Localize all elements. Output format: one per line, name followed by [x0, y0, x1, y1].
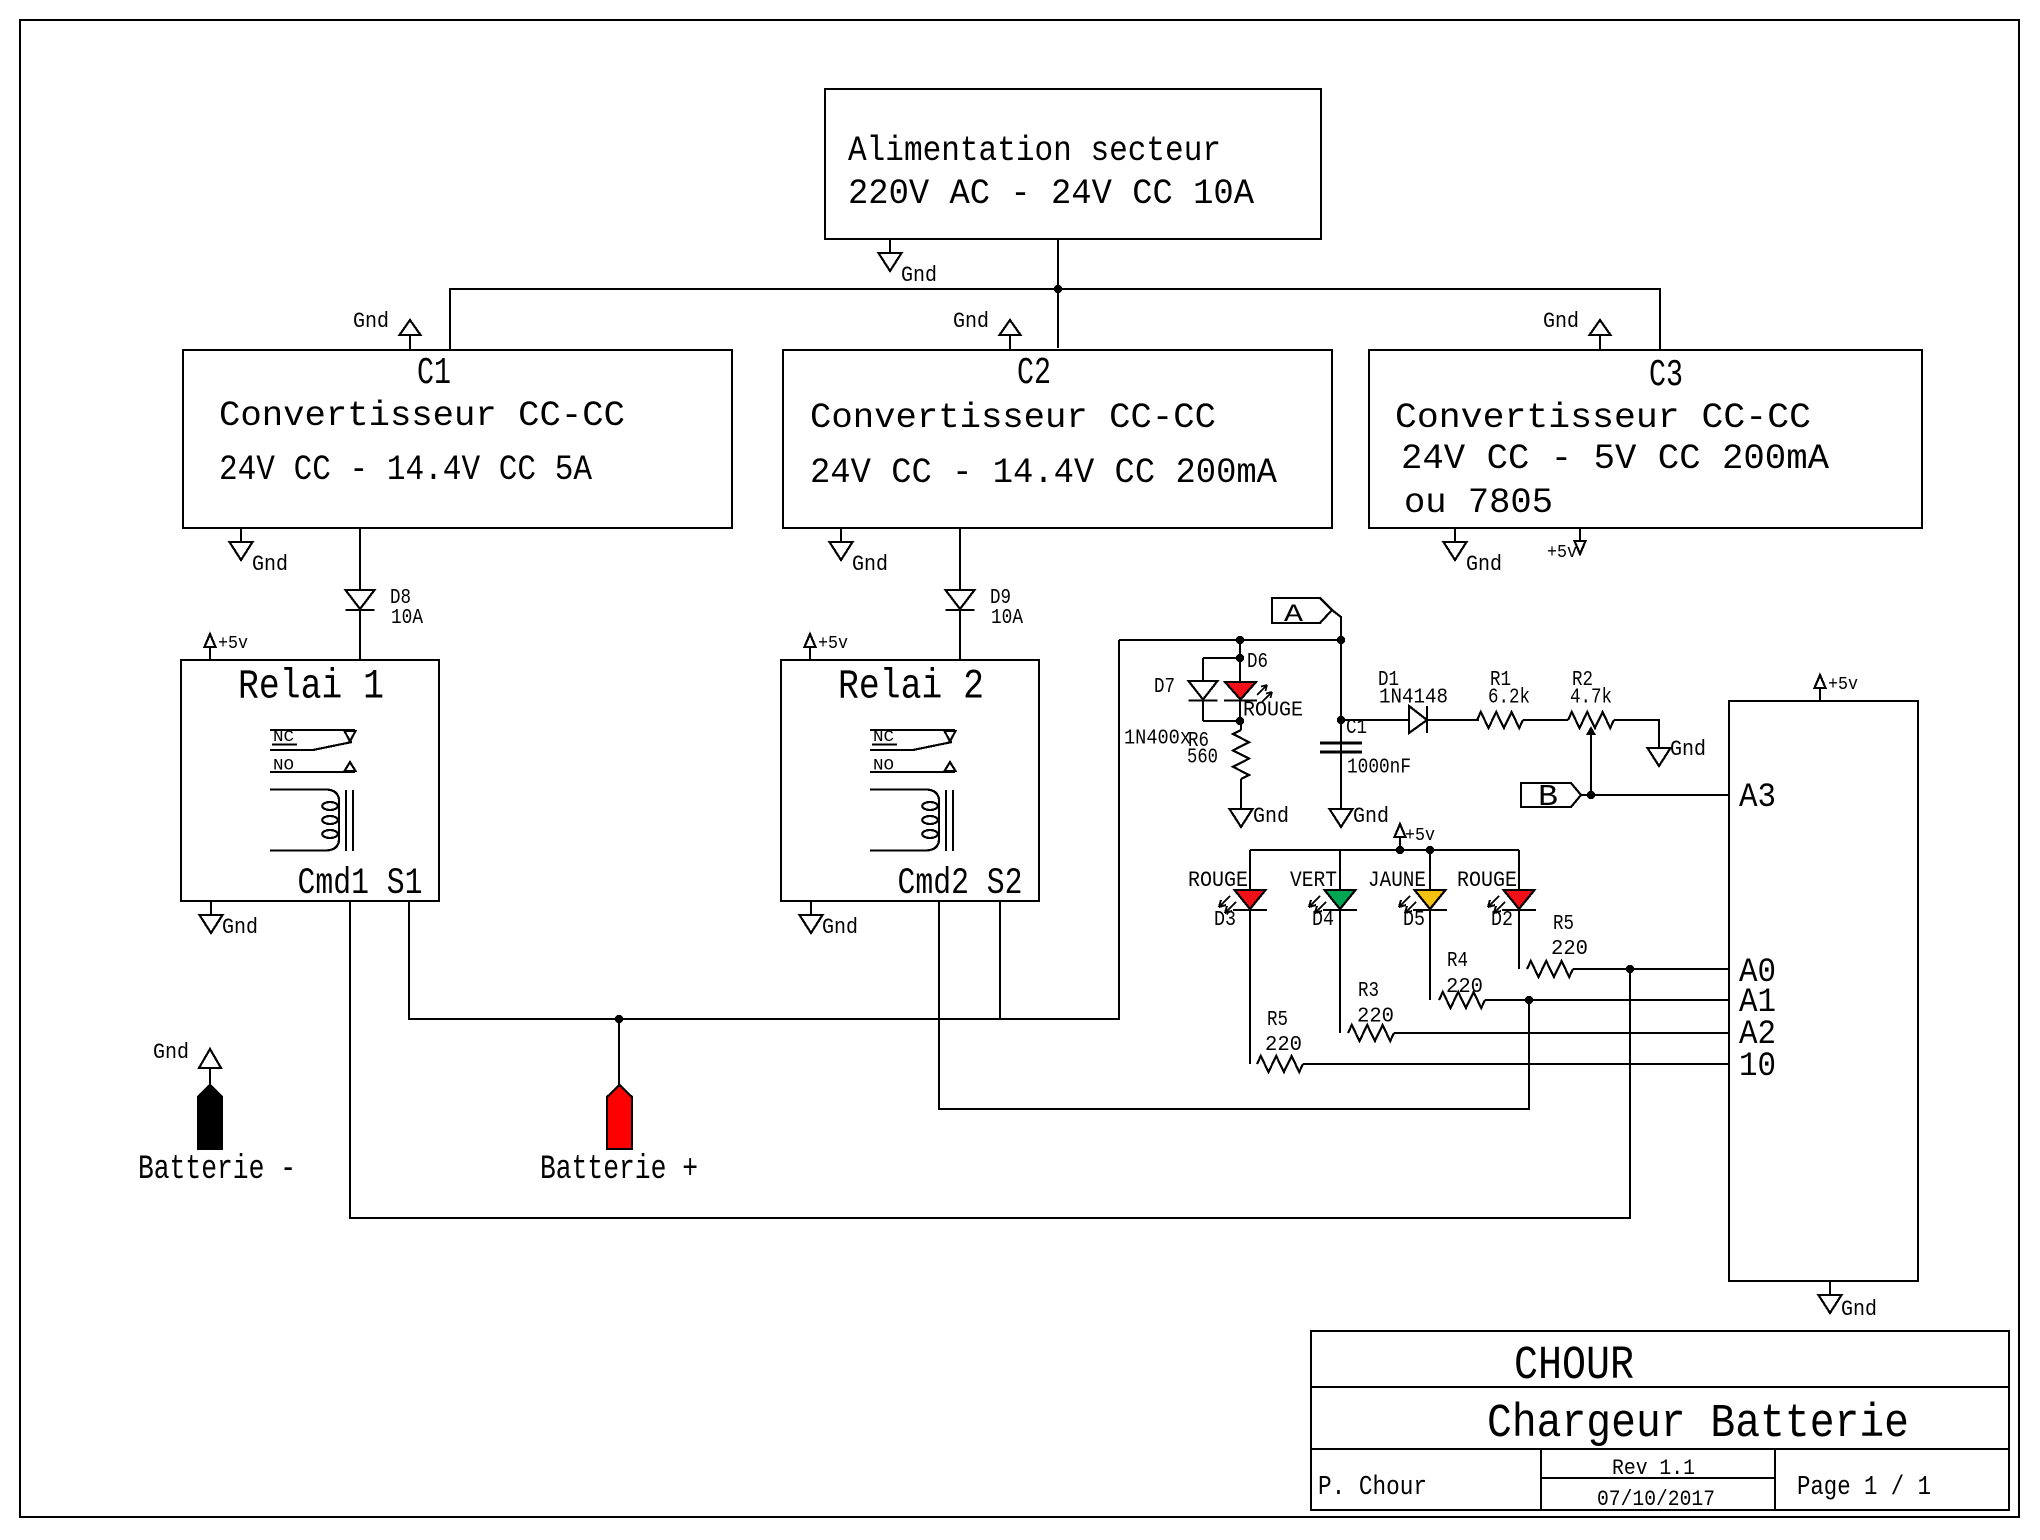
svg-text:220V AC - 24V CC 10A: 220V AC - 24V CC 10A [848, 174, 1254, 214]
svg-text:Convertisseur CC-CC: Convertisseur CC-CC [1395, 398, 1811, 438]
svg-text:24V CC - 14.4V CC 5A: 24V CC - 14.4V CC 5A [219, 450, 592, 490]
svg-text:D7: D7 [1154, 676, 1175, 699]
svg-text:Alimentation secteur: Alimentation secteur [848, 131, 1221, 171]
svg-text:VERT: VERT [1290, 868, 1337, 893]
svg-text:Chargeur Batterie: Chargeur Batterie [1487, 1398, 1909, 1451]
svg-text:1000nF: 1000nF [1347, 757, 1411, 780]
svg-text:Convertisseur CC-CC: Convertisseur CC-CC [219, 396, 625, 436]
svg-text:220: 220 [1551, 938, 1588, 961]
svg-text:CHOUR: CHOUR [1514, 1340, 1634, 1393]
svg-text:Batterie +: Batterie + [540, 1151, 698, 1189]
svg-text:Page 1 / 1: Page 1 / 1 [1797, 1473, 1931, 1503]
svg-text:ROUGE: ROUGE [1243, 700, 1303, 723]
svg-text:Gnd: Gnd [1670, 737, 1706, 762]
svg-text:Gnd: Gnd [252, 552, 288, 577]
svg-text:220: 220 [1446, 976, 1483, 999]
svg-text:Gnd: Gnd [353, 309, 389, 334]
svg-text:6.2k: 6.2k [1488, 687, 1530, 710]
svg-text:D5: D5 [1403, 909, 1425, 932]
svg-text:10: 10 [1739, 1048, 1776, 1086]
svg-text:220: 220 [1265, 1034, 1302, 1057]
svg-text:+5v: +5v [1547, 543, 1577, 563]
svg-text:A: A [1284, 600, 1303, 629]
svg-text:Gnd: Gnd [1543, 309, 1579, 334]
svg-text:D6: D6 [1247, 651, 1268, 674]
svg-text:1N400x: 1N400x [1124, 728, 1191, 751]
svg-text:Rev 1.1: Rev 1.1 [1612, 1456, 1695, 1481]
svg-text:220: 220 [1357, 1006, 1394, 1029]
svg-text:C1: C1 [417, 352, 451, 395]
svg-text:D2: D2 [1491, 909, 1513, 932]
svg-text:1N4148: 1N4148 [1379, 687, 1448, 710]
svg-text:D4: D4 [1312, 909, 1334, 932]
svg-text:D3: D3 [1214, 909, 1236, 932]
svg-text:10A: 10A [391, 607, 423, 630]
svg-text:Gnd: Gnd [1253, 804, 1289, 829]
svg-text:R3: R3 [1358, 980, 1379, 1003]
svg-text:ROUGE: ROUGE [1457, 868, 1517, 893]
svg-text:Cmd1 S1: Cmd1 S1 [298, 863, 423, 905]
svg-text:Gnd: Gnd [822, 915, 858, 940]
svg-text:Batterie -: Batterie - [138, 1151, 296, 1189]
svg-text:24V CC - 14.4V CC 200mA: 24V CC - 14.4V CC 200mA [810, 453, 1277, 493]
svg-text:4.7k: 4.7k [1570, 687, 1612, 710]
svg-text:JAUNE: JAUNE [1368, 868, 1426, 893]
svg-text:10A: 10A [991, 607, 1023, 630]
svg-text:Gnd: Gnd [222, 915, 258, 940]
svg-text:560: 560 [1187, 747, 1218, 770]
svg-text:R5: R5 [1553, 913, 1574, 936]
svg-text:+5v: +5v [818, 634, 848, 654]
svg-text:A3: A3 [1739, 779, 1776, 817]
svg-text:Gnd: Gnd [1353, 804, 1389, 829]
svg-text:B: B [1538, 780, 1558, 815]
svg-text:24V CC - 5V CC 200mA: 24V CC - 5V CC 200mA [1401, 439, 1829, 479]
svg-text:07/10/2017: 07/10/2017 [1597, 1487, 1715, 1512]
svg-text:Convertisseur CC-CC: Convertisseur CC-CC [810, 398, 1216, 438]
svg-text:Gnd: Gnd [1841, 1297, 1877, 1322]
svg-text:Cmd2 S2: Cmd2 S2 [898, 863, 1023, 905]
svg-text:P. Chour: P. Chour [1318, 1473, 1427, 1503]
svg-text:ou 7805: ou 7805 [1404, 483, 1553, 523]
svg-text:Gnd: Gnd [1466, 552, 1502, 577]
svg-text:Gnd: Gnd [852, 552, 888, 577]
svg-text:+5v: +5v [1828, 675, 1858, 695]
svg-text:Gnd: Gnd [953, 309, 989, 334]
svg-text:C3: C3 [1649, 354, 1683, 397]
svg-text:Relai 2: Relai 2 [838, 663, 984, 711]
svg-text:R4: R4 [1447, 950, 1468, 973]
svg-text:+5v: +5v [1405, 826, 1435, 846]
svg-text:C2: C2 [1017, 352, 1051, 395]
svg-text:Gnd: Gnd [901, 263, 937, 288]
svg-text:R5: R5 [1267, 1009, 1288, 1032]
svg-text:ROUGE: ROUGE [1188, 868, 1248, 893]
svg-text:Relai 1: Relai 1 [238, 663, 384, 711]
svg-text:Gnd: Gnd [153, 1040, 189, 1065]
svg-text:+5v: +5v [218, 634, 248, 654]
